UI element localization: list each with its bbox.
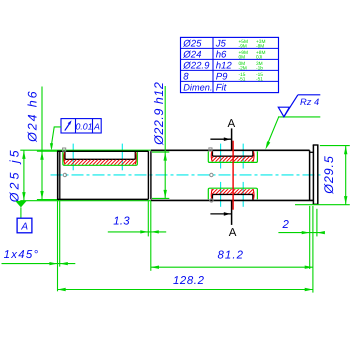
runout symbol arrow [65,122,71,131]
roughness symbol triangle [278,107,289,117]
groove bottom slot outline [212,194,253,199]
svg-text:Ø25 j5: Ø25 j5 [7,147,21,203]
section mark bottom arrowhead [224,212,231,216]
svg-text:Ø24: Ø24 [182,50,201,61]
svg-text:A: A [93,121,100,131]
dim d25 line [23,150,25,200]
groove bottom hatch [208,189,261,195]
svg-text:Ø25: Ø25 [182,39,202,50]
dim d22.9 bottom arrow [164,190,167,198]
section mark top stroke [231,128,233,150]
svg-text:0.01: 0.01 [75,121,92,131]
bottom extension line left face [57,201,59,291]
svg-text:1x45°: 1x45° [4,249,40,261]
roughness symbol shelf [298,94,320,96]
shaft left section chamfer line [59,151,61,199]
groove top green boundary [208,151,257,162]
section mark top arrowhead [224,137,231,141]
svg-text:Ø22.9 h12: Ø22.9 h12 [152,82,166,146]
centerline grip marker middle [210,173,213,176]
svg-text:81.2: 81.2 [218,250,245,262]
bottom extension line chamfer [59,201,61,267]
groove bottom red right arc [252,189,255,199]
svg-text:P9: P9 [216,72,228,83]
dim d29.5 top arrow [344,146,347,154]
runout leader arrowhead [50,143,53,150]
dim d22.9 top stub [152,151,169,153]
keyway grip marker [63,148,66,151]
dim 1.3 right arrow [151,230,159,233]
dim d25 bottom arrow [22,192,25,200]
fit table column divider [212,37,214,92]
dim 1.3 left arrow [140,230,148,233]
svg-text:+5M-9M: +5M-9M [239,39,248,50]
shaft middle section bottom edge [151,199,314,201]
svg-text:h6: h6 [216,50,227,61]
runout frame box [61,119,101,133]
dim d24 bottom extension stub [37,199,57,201]
svg-text:8: 8 [183,72,189,83]
centerline grip marker left [63,173,66,176]
keyway red left arc [64,153,65,165]
svg-text:Ø29.5: Ø29.5 [322,155,336,195]
dim d25 bottom extension line [20,200,151,202]
roughness leader shelf [278,116,320,118]
runout frame divider 1 [75,119,77,133]
dim 2 line [278,232,324,234]
groove top grip marker [209,148,212,151]
roughness symbol leg [284,95,298,117]
dim d22.9 line [164,86,166,198]
dim d25 top extension line [20,149,151,151]
groove bottom grip marker [210,199,213,202]
dim d29.5 bottom extension [295,204,350,206]
svg-text:A: A [229,227,237,239]
collar right face [317,145,319,204]
fit table row line 3 [181,69,279,71]
shaft left section bottom edge [57,198,148,200]
svg-text:Fit: Fit [216,83,227,94]
svg-text:J5: J5 [215,39,227,50]
groove bottom center mark right [242,182,244,207]
bottom extension line groove left [147,201,149,237]
relief groove left line [147,151,149,199]
dim d29.5 line [345,146,347,205]
fit table row line 2 [181,58,279,60]
groove bottom red left arc [210,189,213,199]
svg-text:Dimen.: Dimen. [183,83,212,93]
keyway center mark left [72,144,74,171]
dim d25 top arrow [22,151,25,159]
neck top edge [310,151,314,153]
datum A box [17,218,32,233]
groove bottom green boundary [208,188,257,199]
svg-text:1.3: 1.3 [113,215,130,227]
dim 1x45 left arrow [49,262,57,265]
groove top red right arc [252,151,255,161]
dim 1x45 right arrow [60,262,68,265]
dim 81.2 left arrow [151,266,159,269]
groove top center mark right [242,144,244,169]
runout frame divider 2 [92,119,94,133]
keyway section hatch [60,159,138,165]
dim d22.9 top arrow [164,152,167,160]
groove top center mark left [220,144,222,169]
dim 128.2 line [58,289,313,291]
centerline [51,174,323,176]
svg-text:Ø22.9: Ø22.9 [182,61,210,72]
dim 1x45 line [2,263,76,265]
dim 2 right arrow [317,231,325,234]
section mark top arrow line [210,138,231,140]
shaft left section top edge [57,150,148,152]
dim d29.5 bottom arrow [344,196,347,204]
collar top edge [313,144,319,146]
section mark bottom stroke [231,200,233,225]
dim d24 bottom arrow [40,191,43,199]
fit table row line 1 [181,47,279,49]
dim d24 top arrow [40,151,43,159]
groove top slot outline [212,151,253,156]
dim d24 line [41,87,43,200]
roughness leader arrowhead [265,141,270,149]
datum A triangle [15,201,26,208]
keyway center mark right [121,144,123,171]
roughness leader diagonal [267,117,279,146]
dim d22.9 bottom stub [152,197,169,199]
collar bottom edge [313,203,319,205]
dim 81.2 right arrow [305,266,313,269]
dim d24 top extension stub [37,150,57,152]
bottom extension line neck left [309,206,311,269]
dim 128.2 left arrow [58,288,66,291]
keyway red right arc [135,153,136,165]
svg-text:h12: h12 [216,61,233,72]
svg-text:2: 2 [282,219,290,231]
svg-text:Ø24 h6: Ø24 h6 [25,89,39,142]
shaft middle section end face [309,150,311,200]
groove top red left arc [210,151,213,161]
keyway slot outline [65,152,135,160]
dim d29.5 top extension [320,145,350,147]
svg-text:A: A [20,222,28,233]
svg-text:-15-51: -15-51 [256,72,263,83]
dim 2 left arrow [302,231,310,234]
bottom extension line collar right [316,209,318,237]
dim 81.2 line [151,266,313,268]
shaft middle section top edge [151,149,310,151]
groove top hatch [208,156,261,162]
bottom extension line groove right [150,201,152,271]
runout leader [52,127,62,148]
svg-text:Rz 4: Rz 4 [300,97,319,107]
dim 128.2 right arrow [305,288,313,291]
svg-text:3M-1b: 3M-1b [256,61,263,72]
fit table outer box [181,37,279,92]
relief groove right line [150,151,152,199]
groove bottom center mark left [220,182,222,207]
svg-text:128.2: 128.2 [173,275,205,287]
section mark bottom arrow line [210,213,231,215]
bottom extension line collar left [312,206,314,293]
svg-text:+3M-8M: +3M-8M [256,39,265,50]
collar left face [312,145,314,204]
section line A-A red cut [232,141,234,210]
dim 1.3 line [108,231,166,233]
svg-text:-15-51: -15-51 [239,72,246,83]
keyway green boundary [63,152,137,165]
shaft left section face [57,151,59,199]
svg-text:A: A [227,118,235,130]
datum A stem [20,207,22,218]
fit table row line 4 [181,80,279,82]
